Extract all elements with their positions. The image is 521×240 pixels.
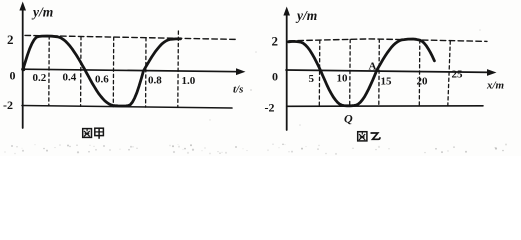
left graph y-axis xyxy=(22,8,24,128)
left dashed vertical t=0.6 xyxy=(112,37,114,107)
svg-text:0.4: 0.4 xyxy=(63,72,77,84)
left dashed vertical t=0.2 xyxy=(48,36,50,106)
right dashed vertical x=25 xyxy=(448,41,451,106)
svg-text:A: A xyxy=(369,61,377,73)
left y-axis arrowhead xyxy=(19,2,26,11)
right +2 dashed gridline xyxy=(289,39,487,42)
left t-axis arrowhead xyxy=(236,68,246,75)
svg-text:2: 2 xyxy=(7,32,14,47)
svg-text:0.8: 0.8 xyxy=(148,75,162,87)
svg-text:-2: -2 xyxy=(265,100,275,114)
svg-text:0.6: 0.6 xyxy=(95,74,109,86)
svg-text:20: 20 xyxy=(417,76,429,88)
svg-text:10: 10 xyxy=(337,73,349,85)
right -2 solid line xyxy=(287,105,483,108)
svg-text:x/m: x/m xyxy=(486,79,505,91)
right graph x-axis xyxy=(286,70,490,72)
right wave curve xyxy=(289,39,435,106)
svg-text:0: 0 xyxy=(272,69,278,83)
left dashed vertical t=1.0 xyxy=(177,31,180,107)
right dashed vertical x=20 xyxy=(418,40,421,106)
caption 图乙 (drawn glyphs) xyxy=(358,132,380,141)
right dashed vertical x=5 xyxy=(318,40,321,106)
left -2 solid line xyxy=(22,106,232,109)
svg-text:1.0: 1.0 xyxy=(182,75,196,87)
left +2 dashed gridline xyxy=(25,35,236,39)
node origin blob xyxy=(21,67,25,71)
svg-text:t/s: t/s xyxy=(233,84,243,96)
left wave curve xyxy=(23,36,181,106)
svg-text:y/m: y/m xyxy=(31,5,53,20)
right x-axis arrowhead xyxy=(487,69,497,76)
svg-text:Q: Q xyxy=(344,112,353,126)
left dashed vertical t=0.8 xyxy=(145,38,147,107)
svg-text:2: 2 xyxy=(272,34,279,49)
svg-text:25: 25 xyxy=(452,69,464,81)
right dashed vertical x=10 xyxy=(349,39,352,106)
svg-text:y/m: y/m xyxy=(295,8,317,23)
right graph y-axis xyxy=(286,13,288,130)
svg-text:0.2: 0.2 xyxy=(33,72,47,84)
left graph t-axis xyxy=(22,69,239,72)
caption 图甲 (drawn glyphs) xyxy=(83,128,104,139)
svg-text:-2: -2 xyxy=(3,98,13,112)
right y-axis arrowhead xyxy=(283,7,290,16)
right dashed vertical x=15 xyxy=(378,39,381,106)
left dashed vertical t=0.4 xyxy=(80,37,82,107)
svg-text:15: 15 xyxy=(381,76,393,88)
svg-text:5: 5 xyxy=(309,73,315,85)
svg-text:0: 0 xyxy=(10,69,16,83)
